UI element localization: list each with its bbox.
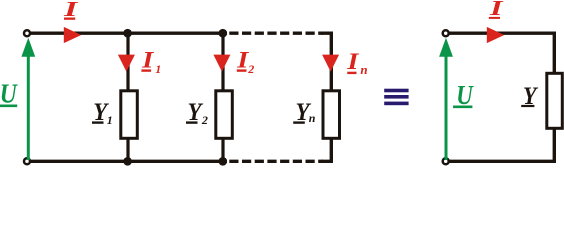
terminal top-right circuit [443, 30, 449, 36]
svg-text:n: n [360, 62, 367, 77]
current arrow I (right) [487, 27, 505, 43]
wire right vertical lower [553, 130, 556, 164]
admittance box Yn [323, 91, 340, 139]
junction dot top 1 [123, 29, 132, 38]
current arrow I2 [213, 55, 230, 72]
svg-text:I: I [346, 49, 360, 74]
svg-text:2: 2 [247, 62, 254, 76]
voltage arrow U (left) [27, 54, 30, 160]
terminal top-left [24, 30, 30, 36]
junction dot bottom 1 [123, 157, 132, 166]
wire branch 2 lower [221, 140, 224, 162]
svg-text:I: I [141, 48, 155, 73]
current arrow I (left top wire) [64, 27, 81, 43]
wire bottom (left circuit, solid part) [27, 160, 227, 163]
wire top dashed [229, 32, 323, 35]
svg-text:U: U [0, 79, 18, 109]
svg-text:U: U [456, 80, 474, 110]
wire right vertical upper [553, 33, 556, 72]
wire bottom (right circuit) [446, 160, 556, 163]
wire top (right circuit) [449, 32, 556, 35]
voltage arrow U (right) [445, 54, 448, 160]
terminal bottom-right circuit [443, 158, 449, 164]
wire branch 1 lower [126, 140, 129, 162]
admittance box Y1 [121, 91, 138, 139]
wire bottom-right corner [322, 140, 332, 162]
svg-text:2: 2 [201, 113, 208, 127]
wire top (left circuit, solid part) [30, 32, 227, 35]
svg-text:1: 1 [107, 113, 113, 127]
wire branch 1 upper [126, 33, 129, 89]
terminal bottom-left [24, 158, 30, 164]
admittance box Y2 [216, 91, 233, 139]
junction dot top 2 [219, 29, 228, 38]
svg-text:1: 1 [155, 62, 161, 76]
current arrow In [322, 55, 339, 72]
equivalence symbol [384, 89, 408, 106]
wire top-right corner [322, 33, 332, 89]
svg-text:n: n [309, 111, 316, 125]
admittance box Y (right) [547, 73, 563, 128]
wire bottom dashed [229, 160, 323, 163]
wire branch 2 upper [221, 33, 224, 89]
junction dot bottom 2 [219, 157, 228, 166]
current arrow I1 [118, 55, 135, 72]
